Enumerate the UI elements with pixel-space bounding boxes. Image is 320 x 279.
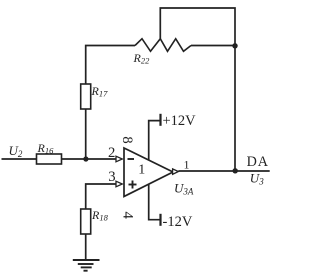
node C: output junction with feedback (233, 168, 238, 173)
wire: R18 to ground (85, 234, 87, 260)
svg-text:R22: R22 (133, 51, 151, 66)
wire: non-inverting input branch to R18 (86, 184, 116, 209)
wire: +12V supply to pin 8 (149, 121, 161, 161)
svg-text:U3: U3 (250, 171, 264, 187)
svg-text:R17: R17 (91, 84, 109, 99)
resistor R22 (zigzag) (135, 39, 191, 52)
resistor R16 (37, 154, 62, 164)
wire: R17 top to R22 left (86, 46, 135, 85)
svg-text:U2: U2 (9, 143, 23, 159)
wire: feedback vertical from node B to output node (234, 46, 236, 172)
wire: R22 right to node B (191, 45, 235, 47)
op-amp inverting input marker (minus) (128, 158, 135, 160)
op-amp U3A (triangle body) (124, 148, 173, 197)
label R22 (133, 51, 151, 66)
label U3 (250, 171, 264, 187)
pin label 8 (rotated) (119, 136, 135, 143)
svg-text:+12V: +12V (163, 113, 197, 129)
svg-text:R16: R16 (37, 141, 55, 156)
pin label 3 (108, 169, 115, 185)
resistor R18 (81, 209, 91, 234)
svg-text:8: 8 (119, 136, 135, 143)
wire: output to DA (178, 170, 269, 172)
svg-text:4: 4 (120, 211, 136, 219)
node B: junction of R22 and feedback loop (232, 43, 237, 48)
svg-text:1: 1 (184, 158, 190, 172)
resistor R17 (81, 84, 91, 109)
svg-text:U3A: U3A (174, 181, 194, 197)
label U2 (input net) (9, 143, 23, 159)
node A: junction of R16, R17 and pin 2 (83, 156, 88, 161)
pin label 4 (rotated) (120, 211, 136, 219)
svg-text:DA: DA (247, 154, 269, 170)
label U3A (174, 181, 194, 197)
label +12V (163, 113, 197, 129)
label R17 (91, 84, 109, 99)
ground (73, 260, 100, 271)
terminal tick +12V (159, 114, 161, 126)
label R16 (37, 141, 55, 156)
svg-text:2: 2 (108, 145, 115, 161)
svg-text:1: 1 (138, 162, 145, 177)
terminal tick -12V (159, 214, 161, 226)
pin 3 arrowhead (116, 181, 122, 187)
pin label 2 (108, 145, 115, 161)
pin 2 arrowhead (116, 156, 122, 162)
label -12V (163, 214, 193, 230)
label R18 (91, 208, 109, 223)
label 1 (inside op-amp) (138, 162, 145, 177)
pin 1 output arrowhead (173, 169, 179, 174)
label DA (247, 154, 269, 170)
svg-text:3: 3 (108, 169, 115, 185)
wire: node A up to R17 (85, 109, 87, 159)
pin label 1 (output) (184, 158, 190, 172)
svg-text:R18: R18 (91, 208, 109, 223)
svg-text:-12V: -12V (163, 214, 193, 230)
wire: input from U2 to inverting input (2, 158, 117, 160)
wire: top feedback loop (160, 8, 235, 46)
wire: -12V supply to pin 4 (149, 184, 161, 220)
op-amp non-inverting input marker (plus) (129, 181, 137, 189)
